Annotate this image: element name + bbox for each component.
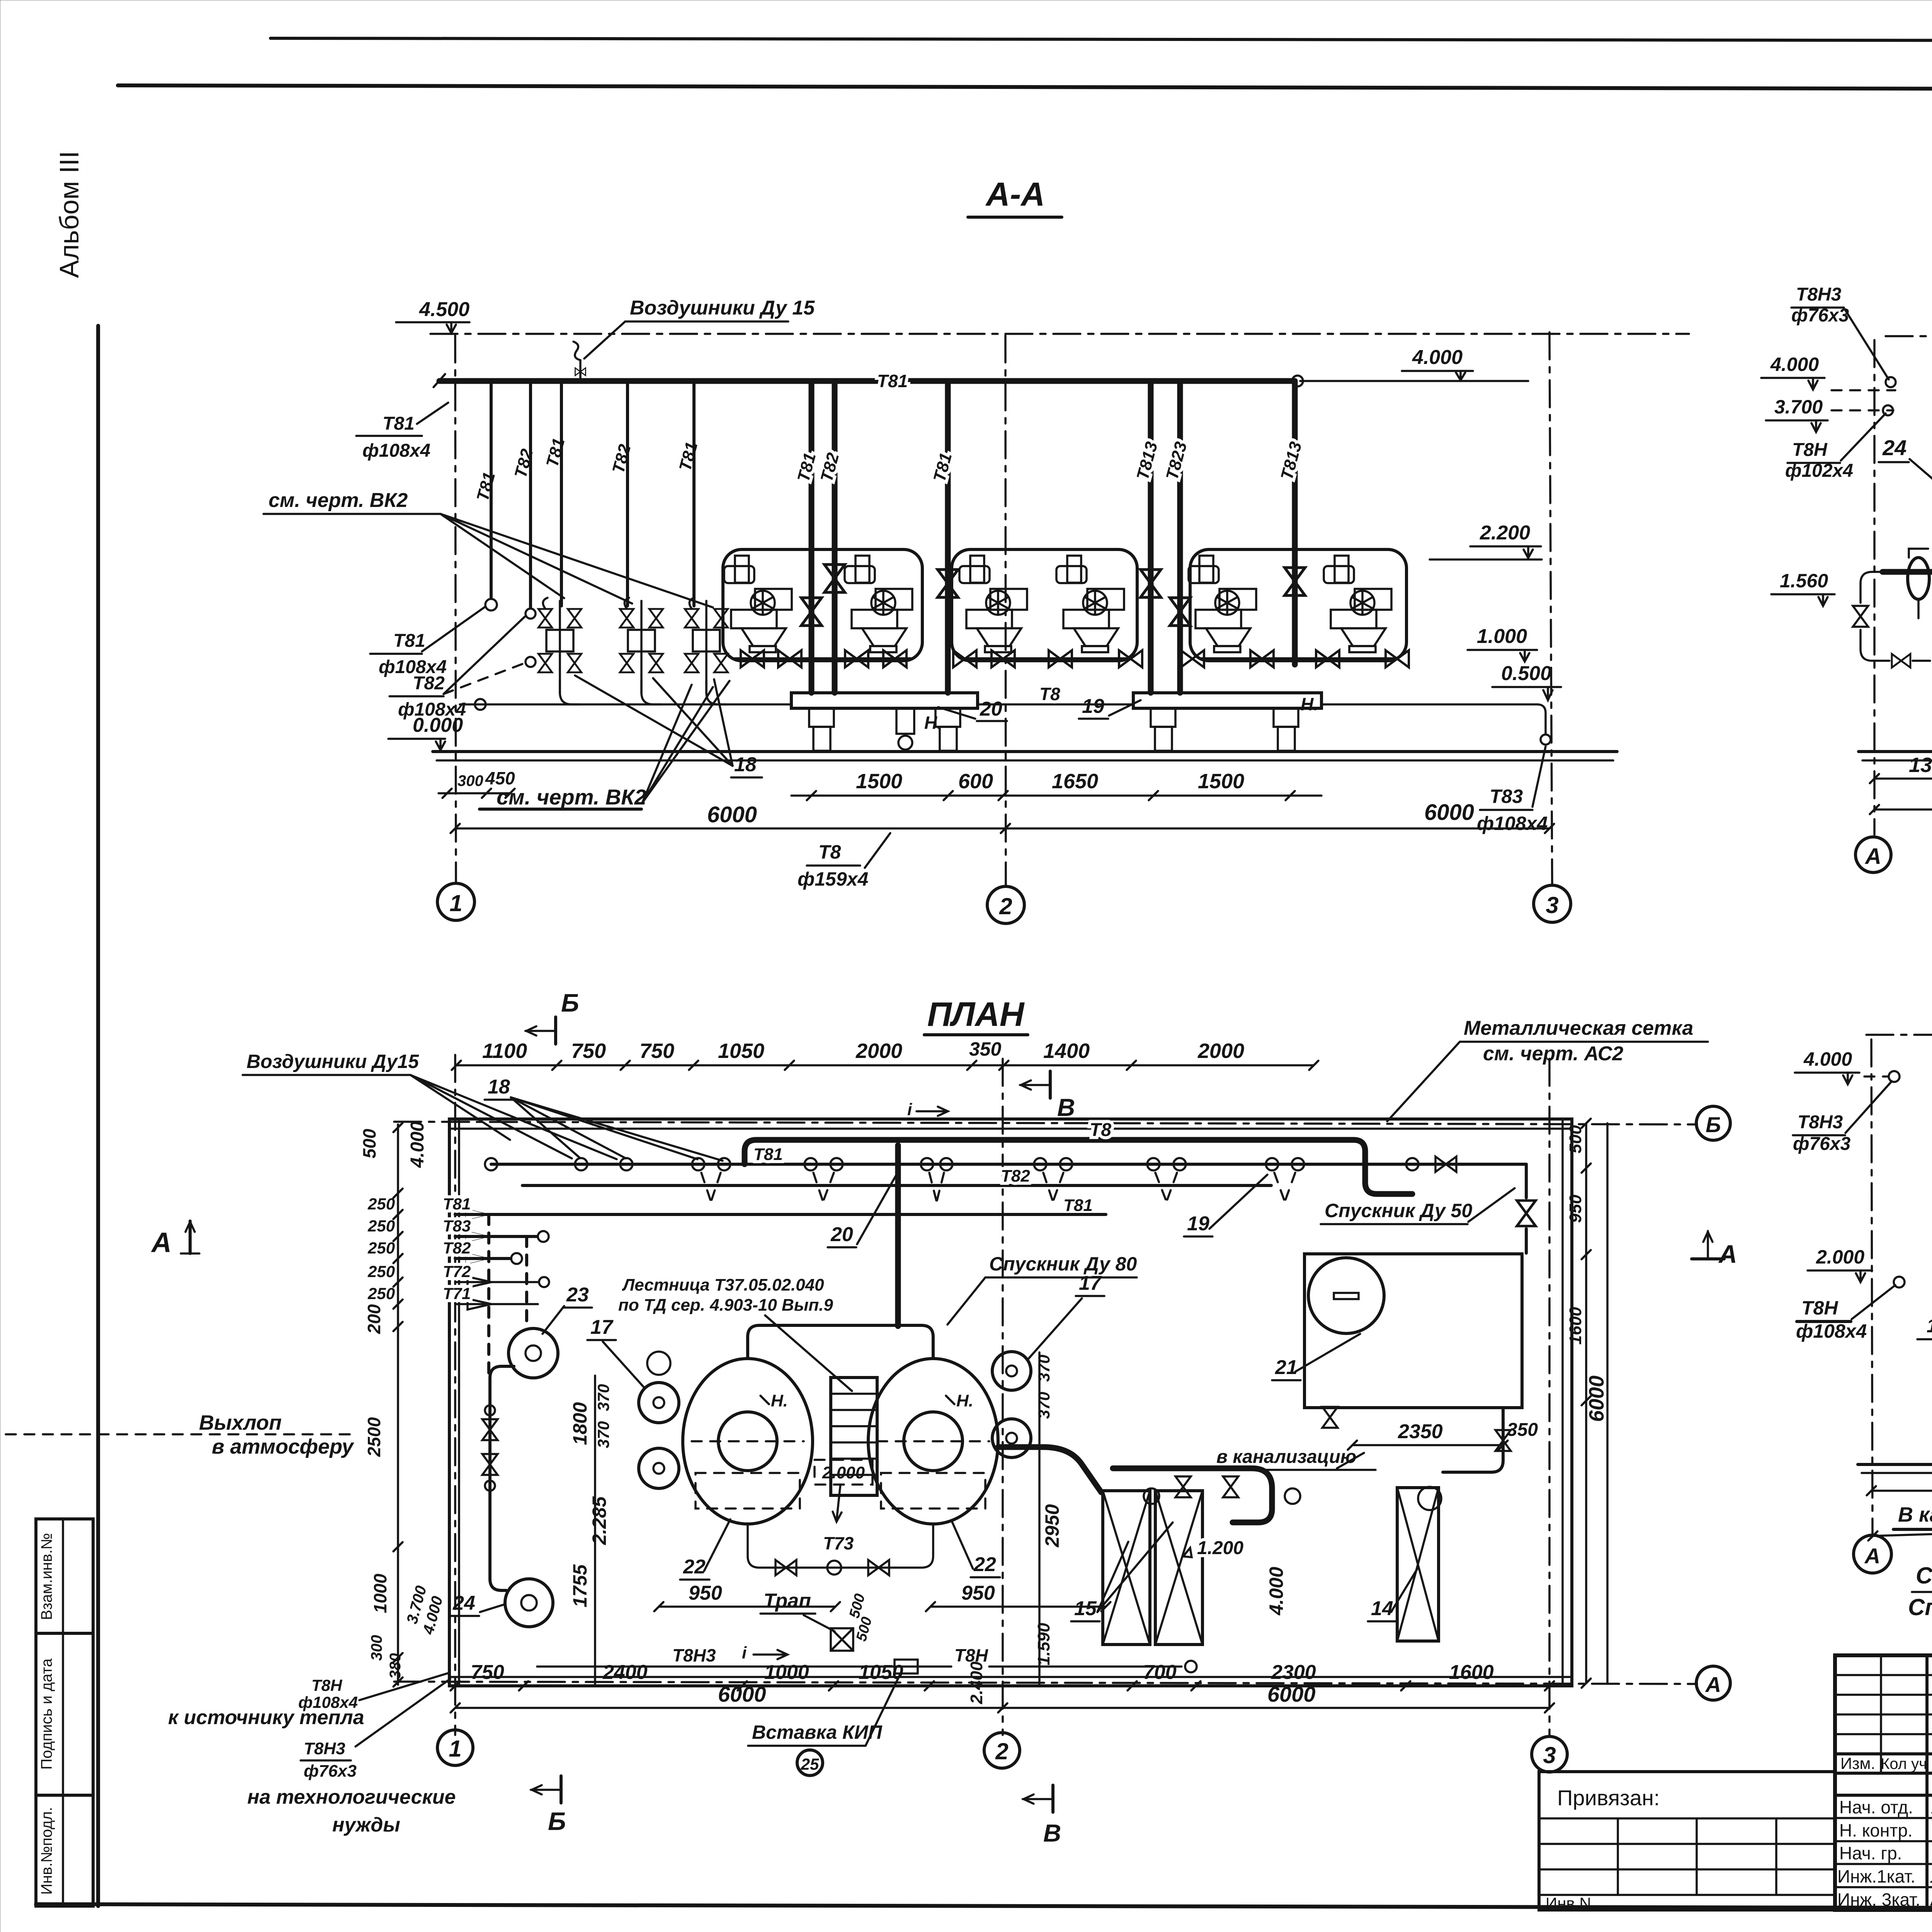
svg-text:Т82: Т82 bbox=[413, 673, 445, 694]
svg-text:на технологические: на технологические bbox=[247, 1786, 456, 1808]
svg-text:2300: 2300 bbox=[1271, 1661, 1316, 1684]
svg-text:см. черт. ВК2: см. черт. ВК2 bbox=[497, 785, 646, 809]
svg-text:ф108х4: ф108х4 bbox=[1477, 813, 1548, 834]
svg-text:А: А bbox=[1864, 844, 1881, 869]
svg-text:18: 18 bbox=[488, 1076, 510, 1098]
svg-text:1.200: 1.200 bbox=[1197, 1538, 1243, 1558]
svg-text:1.000: 1.000 bbox=[1477, 625, 1527, 648]
svg-text:6000: 6000 bbox=[1424, 800, 1474, 825]
svg-text:1600: 1600 bbox=[1449, 1661, 1494, 1684]
svg-text:6000: 6000 bbox=[1267, 1682, 1316, 1706]
svg-text:Т81: Т81 bbox=[877, 371, 908, 391]
svg-text:см. черт. АС2: см. черт. АС2 bbox=[1483, 1043, 1623, 1065]
svg-text:Инв.№подл.: Инв.№подл. bbox=[38, 1807, 55, 1895]
svg-text:Т81: Т81 bbox=[543, 436, 568, 469]
svg-text:20: 20 bbox=[830, 1223, 853, 1246]
svg-text:Т8: Т8 bbox=[1039, 684, 1060, 704]
svg-text:Подпись и дата: Подпись и дата bbox=[38, 1658, 55, 1769]
svg-text:ф108х4: ф108х4 bbox=[1796, 1320, 1867, 1342]
svg-text:350: 350 bbox=[969, 1038, 1002, 1060]
svg-text:2.400: 2.400 bbox=[967, 1661, 986, 1704]
svg-text:1755: 1755 bbox=[569, 1564, 591, 1607]
svg-text:4.000: 4.000 bbox=[1265, 1567, 1287, 1616]
svg-text:Н.: Н. bbox=[956, 1391, 973, 1410]
svg-text:2950: 2950 bbox=[1041, 1504, 1063, 1548]
svg-text:Т8Н3: Т8Н3 bbox=[672, 1645, 716, 1665]
svg-text:Трап: Трап bbox=[764, 1590, 811, 1612]
svg-text:1.200: 1.200 bbox=[1927, 1315, 1932, 1337]
svg-text:6000: 6000 bbox=[718, 1682, 766, 1706]
svg-text:6000: 6000 bbox=[707, 802, 757, 827]
svg-text:в канализацию: в канализацию bbox=[1216, 1447, 1356, 1467]
svg-text:Т81: Т81 bbox=[383, 413, 415, 434]
svg-text:Т73: Т73 bbox=[823, 1533, 854, 1553]
svg-text:1400: 1400 bbox=[1043, 1039, 1090, 1063]
svg-text:2350: 2350 bbox=[1398, 1420, 1443, 1443]
svg-text:24: 24 bbox=[1882, 435, 1906, 460]
svg-text:ф76х3: ф76х3 bbox=[1791, 305, 1849, 326]
svg-text:1000: 1000 bbox=[764, 1661, 809, 1684]
svg-text:250: 250 bbox=[367, 1217, 395, 1235]
svg-text:250: 250 bbox=[367, 1262, 395, 1281]
svg-text:Альбом III: Альбом III bbox=[54, 151, 84, 278]
svg-text:2.200: 2.200 bbox=[1480, 522, 1530, 544]
svg-text:Инж. 3кат.: Инж. 3кат. bbox=[1837, 1889, 1920, 1910]
svg-text:600: 600 bbox=[958, 770, 993, 793]
svg-text:ф76х3: ф76х3 bbox=[1793, 1134, 1851, 1154]
svg-text:250: 250 bbox=[367, 1239, 395, 1257]
svg-text:380: 380 bbox=[387, 1653, 404, 1679]
svg-text:Т8: Т8 bbox=[818, 841, 841, 863]
svg-text:ф108х4: ф108х4 bbox=[298, 1693, 358, 1711]
svg-text:1800: 1800 bbox=[569, 1402, 591, 1445]
svg-text:1650: 1650 bbox=[1052, 770, 1098, 793]
svg-text:300: 300 bbox=[457, 772, 483, 789]
svg-text:3: 3 bbox=[1543, 1742, 1556, 1768]
svg-text:Т82: Т82 bbox=[609, 442, 634, 475]
svg-text:А: А bbox=[1864, 1544, 1880, 1568]
svg-text:Т83: Т83 bbox=[1490, 786, 1523, 807]
svg-text:750: 750 bbox=[639, 1039, 674, 1063]
svg-text:Т8Н: Т8Н bbox=[1801, 1297, 1838, 1319]
svg-text:Т81: Т81 bbox=[930, 451, 956, 484]
svg-text:В канализацию: В канализацию bbox=[1898, 1503, 1932, 1526]
svg-text:ф76х3: ф76х3 bbox=[304, 1762, 357, 1781]
svg-text:А-А: А-А bbox=[985, 176, 1045, 213]
svg-text:Т72: Т72 bbox=[443, 1262, 471, 1281]
svg-text:2400: 2400 bbox=[602, 1661, 648, 1684]
svg-text:2.285: 2.285 bbox=[588, 1496, 610, 1545]
svg-text:3.700: 3.700 bbox=[1774, 396, 1823, 418]
svg-text:300: 300 bbox=[368, 1635, 385, 1661]
svg-text:1100: 1100 bbox=[482, 1039, 527, 1063]
svg-text:ф108х4: ф108х4 bbox=[362, 440, 430, 461]
svg-text:нужды: нужды bbox=[332, 1814, 400, 1836]
svg-text:17: 17 bbox=[1079, 1272, 1102, 1294]
svg-text:2.000: 2.000 bbox=[1816, 1246, 1864, 1268]
svg-text:Н.: Н. bbox=[924, 713, 942, 733]
svg-text:Спускник Ду 80: Спускник Ду 80 bbox=[989, 1253, 1137, 1275]
svg-text:Лысикова: Лысикова bbox=[1930, 1866, 1932, 1886]
svg-text:в атмосферу: в атмосферу bbox=[212, 1435, 355, 1458]
svg-text:2500: 2500 bbox=[364, 1417, 384, 1457]
svg-text:ПЛАН: ПЛАН bbox=[927, 995, 1025, 1033]
svg-text:ф102х4: ф102х4 bbox=[1785, 461, 1853, 481]
svg-text:А: А bbox=[151, 1227, 172, 1258]
svg-text:Т813: Т813 bbox=[1133, 440, 1161, 482]
svg-text:1.590: 1.590 bbox=[1034, 1622, 1053, 1665]
svg-text:В: В bbox=[1057, 1094, 1075, 1121]
svg-text:Т8Н: Т8Н bbox=[311, 1676, 343, 1694]
svg-text:2: 2 bbox=[995, 1738, 1008, 1764]
svg-text:Спускник Ду 50: Спускник Ду 50 bbox=[1325, 1200, 1472, 1221]
svg-text:Привязан:: Привязан: bbox=[1557, 1786, 1660, 1810]
svg-text:Т82: Т82 bbox=[443, 1239, 471, 1257]
svg-text:22: 22 bbox=[973, 1553, 996, 1576]
svg-text:Н.: Н. bbox=[1301, 694, 1318, 714]
svg-text:Спецификацию вставок КИП см. Т: Спецификацию вставок КИП см. ТХ2-4 bbox=[1908, 1594, 1932, 1620]
svg-text:i: i bbox=[907, 1100, 912, 1119]
svg-text:Выхлоп: Выхлоп bbox=[199, 1411, 282, 1434]
svg-text:24: 24 bbox=[452, 1592, 475, 1614]
svg-text:Т81: Т81 bbox=[443, 1195, 471, 1213]
svg-text:Металлическая сетка: Металлическая сетка bbox=[1464, 1017, 1693, 1039]
svg-text:1600: 1600 bbox=[1566, 1307, 1585, 1345]
svg-text:Взам.инв.№: Взам.инв.№ bbox=[38, 1533, 55, 1620]
svg-text:А: А bbox=[1718, 1240, 1737, 1268]
svg-text:950: 950 bbox=[689, 1582, 722, 1604]
svg-text:4.000: 4.000 bbox=[1770, 354, 1819, 375]
svg-text:Б: Б bbox=[1706, 1112, 1721, 1137]
svg-text:950: 950 bbox=[1566, 1194, 1585, 1223]
svg-text:Инж.1кат.: Инж.1кат. bbox=[1837, 1866, 1915, 1886]
svg-text:Н. контр.: Н. контр. bbox=[1839, 1820, 1913, 1840]
svg-text:1.560: 1.560 bbox=[1780, 570, 1828, 592]
svg-text:Т82: Т82 bbox=[817, 451, 843, 484]
svg-text:по ТД сер. 4.903-10 Вып.9: по ТД сер. 4.903-10 Вып.9 bbox=[618, 1296, 833, 1315]
svg-text:2.000: 2.000 bbox=[822, 1463, 865, 1482]
svg-text:i: i bbox=[742, 1643, 747, 1662]
svg-text:1050: 1050 bbox=[718, 1039, 764, 1063]
svg-text:6000: 6000 bbox=[1585, 1376, 1608, 1422]
svg-text:Т81: Т81 bbox=[794, 451, 820, 484]
svg-text:Т813: Т813 bbox=[1277, 440, 1305, 482]
svg-text:370: 370 bbox=[1035, 1392, 1053, 1419]
svg-text:Т81: Т81 bbox=[1063, 1196, 1093, 1215]
svg-text:19: 19 bbox=[1187, 1213, 1209, 1235]
svg-text:1500: 1500 bbox=[1198, 770, 1244, 793]
svg-text:4.000: 4.000 bbox=[1803, 1048, 1852, 1070]
svg-text:Б: Б bbox=[561, 988, 579, 1017]
svg-text:500: 500 bbox=[1566, 1125, 1585, 1153]
svg-text:Нач. отд.: Нач. отд. bbox=[1839, 1797, 1913, 1817]
svg-text:21: 21 bbox=[1275, 1356, 1298, 1379]
svg-text:Вставка КИП: Вставка КИП bbox=[752, 1721, 883, 1743]
svg-text:14: 14 bbox=[1371, 1597, 1393, 1620]
svg-text:Т82: Т82 bbox=[511, 447, 537, 480]
svg-text:см. черт. ВК2: см. черт. ВК2 bbox=[269, 489, 408, 512]
svg-text:Т8Н3: Т8Н3 bbox=[1798, 1112, 1843, 1133]
svg-text:Т71: Т71 bbox=[443, 1284, 471, 1303]
svg-text:Авдеева: Авдеева bbox=[1930, 1889, 1932, 1910]
svg-text:Т81: Т81 bbox=[473, 470, 499, 503]
svg-text:Т8Н: Т8Н bbox=[1792, 440, 1828, 460]
svg-text:В: В bbox=[1043, 1819, 1061, 1847]
svg-text:1: 1 bbox=[449, 890, 462, 916]
svg-text:0.500: 0.500 bbox=[1501, 662, 1551, 685]
svg-text:Кол уч: Кол уч bbox=[1881, 1755, 1927, 1772]
svg-text:500: 500 bbox=[853, 1615, 875, 1643]
svg-text:Инв N: Инв N bbox=[1546, 1894, 1591, 1912]
svg-text:Воздушники Ду 15: Воздушники Ду 15 bbox=[630, 297, 815, 319]
svg-text:25: 25 bbox=[801, 1755, 819, 1773]
svg-text:500: 500 bbox=[359, 1129, 379, 1158]
svg-text:950: 950 bbox=[961, 1582, 995, 1604]
svg-text:23: 23 bbox=[566, 1284, 589, 1306]
svg-text:Изм.: Изм. bbox=[1840, 1754, 1875, 1772]
svg-text:1: 1 bbox=[449, 1736, 461, 1762]
svg-text:750: 750 bbox=[471, 1661, 504, 1684]
svg-text:18: 18 bbox=[734, 753, 757, 776]
svg-text:2: 2 bbox=[999, 893, 1012, 919]
svg-text:750: 750 bbox=[571, 1039, 606, 1063]
svg-text:370: 370 bbox=[594, 1384, 612, 1411]
svg-text:4.000: 4.000 bbox=[407, 1121, 428, 1168]
svg-text:Воздушники Ду15: Воздушники Ду15 bbox=[247, 1051, 419, 1072]
svg-text:Т823: Т823 bbox=[1162, 440, 1190, 482]
svg-text:370: 370 bbox=[594, 1421, 612, 1448]
svg-text:250: 250 bbox=[367, 1195, 395, 1213]
svg-text:Б: Б bbox=[548, 1807, 566, 1835]
svg-text:4.500: 4.500 bbox=[419, 298, 469, 321]
svg-text:17: 17 bbox=[590, 1316, 614, 1338]
svg-text:1500: 1500 bbox=[856, 770, 902, 793]
svg-text:1300: 1300 bbox=[1909, 753, 1932, 777]
svg-text:Лестница Т37.05.02.040: Лестница Т37.05.02.040 bbox=[622, 1276, 824, 1294]
svg-text:20: 20 bbox=[980, 698, 1002, 720]
svg-text:500: 500 bbox=[846, 1592, 868, 1620]
svg-text:Спецификацию оборудования см.: Спецификацию оборудования см. ТХ2-3 bbox=[1916, 1563, 1932, 1588]
svg-text:15: 15 bbox=[1074, 1597, 1097, 1620]
svg-text:2000: 2000 bbox=[855, 1039, 902, 1063]
svg-text:1000: 1000 bbox=[370, 1573, 390, 1613]
svg-text:250: 250 bbox=[367, 1284, 395, 1303]
svg-text:Т82: Т82 bbox=[1001, 1167, 1030, 1185]
svg-text:2000: 2000 bbox=[1197, 1039, 1244, 1063]
svg-text:Т83: Т83 bbox=[443, 1217, 471, 1235]
svg-text:Т81: Т81 bbox=[675, 440, 701, 473]
svg-text:700: 700 bbox=[1143, 1661, 1177, 1684]
svg-text:Нач. гр.: Нач. гр. bbox=[1839, 1843, 1902, 1863]
svg-text:Т8Н3: Т8Н3 bbox=[304, 1739, 345, 1758]
svg-text:200: 200 bbox=[364, 1304, 384, 1334]
svg-text:Т81: Т81 bbox=[753, 1145, 783, 1164]
svg-text:22: 22 bbox=[683, 1556, 706, 1578]
svg-text:А: А bbox=[1705, 1672, 1721, 1697]
svg-text:3: 3 bbox=[1546, 892, 1558, 918]
svg-text:ф159х4: ф159х4 bbox=[798, 868, 868, 890]
svg-text:Т8: Т8 bbox=[1090, 1120, 1111, 1140]
svg-text:Т8Н3: Т8Н3 bbox=[1796, 284, 1842, 305]
svg-text:Н.: Н. bbox=[771, 1391, 788, 1410]
svg-text:370: 370 bbox=[1035, 1355, 1053, 1382]
svg-text:Т81: Т81 bbox=[393, 631, 425, 651]
svg-text:4.000: 4.000 bbox=[1412, 346, 1463, 369]
svg-text:19: 19 bbox=[1082, 695, 1104, 718]
